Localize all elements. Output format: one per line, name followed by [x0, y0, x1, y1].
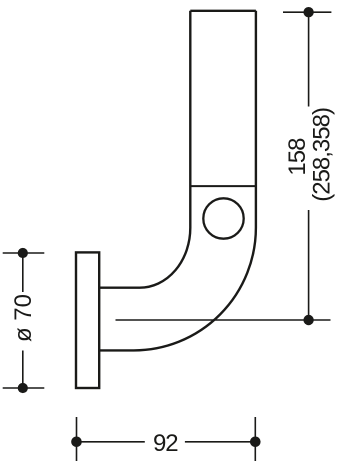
- bottom tick right: [254, 417, 256, 461]
- svg-text:92: 92: [153, 430, 178, 457]
- holder outline: tube top edge: [190, 10, 256, 12]
- left tick bottom: [3, 387, 45, 389]
- holder outline: inner edge (left of tube, inner elbow arc, arm top): [99, 11, 190, 288]
- right dimension line 158: [308, 12, 310, 320]
- centerline: [116, 319, 331, 321]
- dot bottom left: [71, 437, 82, 448]
- dot bottom right: [250, 437, 261, 448]
- left dimension line ø 70: [22, 253, 24, 388]
- bottom dimension line 92: [77, 441, 256, 443]
- wall plate: [76, 252, 99, 388]
- divider line on tube: [190, 185, 256, 187]
- svg-text:ø 70: ø 70: [10, 294, 37, 342]
- left tick top: [3, 252, 45, 254]
- holder outline: outer edge (right of tube, outer elbow arc, arm bottom): [99, 11, 256, 351]
- bottom tick left: [76, 417, 78, 461]
- dot middle right: [303, 315, 313, 325]
- top tick: [283, 11, 331, 13]
- svg-text:(258,358): (258,358): [309, 108, 336, 202]
- dot left bottom: [18, 383, 28, 393]
- circle detail (roll pin): [203, 198, 243, 238]
- svg-text:158: 158: [284, 138, 311, 176]
- dot left top: [18, 248, 28, 258]
- dot top right: [303, 7, 313, 17]
